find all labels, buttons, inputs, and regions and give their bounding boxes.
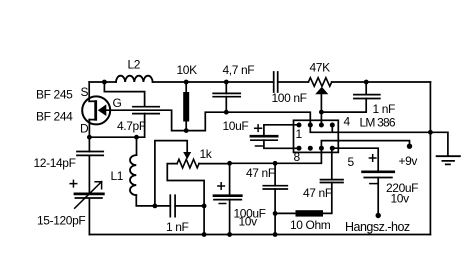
svg-text:4,7 nF: 4,7 nF	[223, 63, 255, 77]
capacitor 220uF bottom lead	[377, 178, 379, 214]
svg-text:4: 4	[344, 115, 351, 129]
capacitor 4.7pF plates	[133, 107, 159, 114]
junction 47nF 10ohm	[273, 211, 278, 216]
capacitor 100uF thick plate	[214, 194, 241, 197]
potentiometer 1k wiper routing	[155, 141, 187, 206]
potentiometer 1k zigzag	[177, 159, 199, 168]
capacitor 15-120pF thin plate	[75, 197, 102, 199]
wire bottom rail	[89, 234, 430, 236]
capacitor 47nF first plates	[263, 186, 287, 189]
resistor 10K body	[183, 92, 189, 122]
potentiometer 1k arrow	[183, 152, 191, 159]
wire right rail	[429, 82, 431, 235]
inductor L2	[116, 76, 153, 82]
wire 12-14pF chain	[88, 137, 90, 234]
IC pin dot 1 bottom	[297, 146, 302, 151]
svg-text:5: 5	[348, 155, 355, 169]
junction right rail ground	[428, 130, 433, 135]
minus sign 220uF	[370, 183, 377, 185]
wire S node to 4.7pF top	[104, 82, 144, 107]
wire S lead	[88, 82, 90, 101]
junction rail drop	[202, 232, 207, 237]
svg-text:+9v: +9v	[399, 154, 418, 168]
svg-text:10K: 10K	[177, 63, 198, 77]
op-amp U1 LM386 body	[294, 120, 339, 152]
ground stub	[430, 132, 448, 156]
ground bars	[437, 156, 460, 164]
wire 1nF right to drop node	[175, 206, 204, 235]
wire node C to IC pin	[230, 148, 322, 163]
IC pin dot 3 bottom	[319, 146, 324, 151]
junction 1nF right	[202, 204, 207, 209]
wire top rail middle segment	[153, 81, 273, 83]
transistor Q1 circle	[82, 96, 110, 124]
plus sign 10uF	[255, 125, 262, 131]
junction 47nF top	[273, 161, 278, 166]
svg-text:10v: 10v	[391, 192, 410, 206]
svg-text:L2: L2	[128, 58, 141, 72]
wire IC pin5 to 220uF	[332, 148, 378, 172]
svg-text:G: G	[113, 96, 122, 110]
resistor 10K top lead	[185, 82, 187, 92]
svg-text:L1: L1	[111, 169, 124, 183]
junction D node left	[87, 135, 92, 140]
plus sign 100uF	[218, 183, 225, 190]
IC pin dot 2 top	[308, 123, 313, 128]
capacitor 1nF top lead	[365, 82, 367, 95]
svg-text:10uF: 10uF	[223, 119, 249, 133]
wire gate from Q1 to lower node	[106, 110, 310, 130]
wire node B to 1nF bottom	[321, 99, 366, 113]
transistor Q1 gate arrow	[98, 104, 107, 116]
wire L1 bottom to 1nF	[136, 195, 170, 206]
svg-text:1: 1	[296, 127, 303, 141]
minus sign 100uF	[219, 203, 226, 205]
svg-text:1 nF: 1 nF	[373, 102, 396, 116]
transistor Q1 internal S bar link	[89, 100, 94, 102]
capacitor 47nF first top lead	[274, 163, 276, 185]
wire IC top pins to right rail	[310, 125, 430, 132]
svg-text:10v: 10v	[239, 215, 258, 229]
wire 1k right lead	[199, 163, 230, 165]
capacitor 100uF top lead	[229, 163, 231, 195]
svg-text:LM 386: LM 386	[360, 116, 396, 130]
capacitor 15-120pF thick plate	[75, 192, 103, 195]
junction 10K bottom	[184, 128, 189, 133]
capacitor 47nF second plates	[321, 180, 344, 183]
capacitor 100uF bottom lead	[229, 200, 231, 235]
svg-text:47 nF: 47 nF	[246, 166, 275, 180]
resistor 10K bottom lead	[185, 122, 187, 131]
svg-text:Hangsz.-hoz: Hangsz.-hoz	[345, 220, 410, 234]
capacitor 1nF bottom plates	[170, 195, 175, 216]
svg-text:1 nF: 1 nF	[166, 220, 189, 234]
transistor Q1 internal D bar link	[89, 119, 94, 121]
capacitor 12-14pF plates	[77, 152, 103, 156]
wire top rail left segment	[89, 81, 116, 83]
IC pin dot 4 bottom	[330, 146, 335, 151]
svg-text:BF 244: BF 244	[36, 110, 73, 124]
svg-text:47 nF: 47 nF	[303, 186, 332, 200]
svg-text:47K: 47K	[310, 61, 331, 75]
capacitor 220uF thin plate	[364, 177, 392, 179]
svg-text:1k: 1k	[200, 147, 213, 161]
capacitor 10uF thin plate	[251, 139, 277, 141]
svg-text:4.7pF: 4.7pF	[117, 119, 146, 133]
svg-text:S: S	[81, 85, 89, 99]
transistor Q1 channel bar	[94, 100, 97, 121]
capacitor 4,7nF bottom lead	[225, 97, 227, 113]
svg-text:12-14pF: 12-14pF	[34, 156, 76, 170]
svg-text:15-120pF: 15-120pF	[37, 214, 85, 228]
wire top rail after 100nF	[279, 81, 309, 83]
junction 1nF bottom wire	[153, 204, 158, 209]
potentiometer 47K zigzag	[308, 78, 331, 87]
IC pin dot 3 top	[319, 123, 324, 128]
junction 100uF rail	[227, 232, 232, 237]
potentiometer 47K arrow	[315, 87, 328, 94]
svg-text:BF 245: BF 245	[36, 88, 73, 102]
wire D lead	[88, 120, 90, 138]
wire 1k left lead routing	[167, 164, 204, 206]
wire 10 Ohm left lead	[275, 212, 295, 214]
capacitor 47nF second top lead	[331, 148, 333, 179]
IC pin dot 4 top	[330, 123, 335, 128]
potentiometer 47K wiper stem	[320, 94, 322, 125]
plus sign 15-120pF	[70, 180, 77, 187]
svg-text:8: 8	[294, 150, 301, 164]
wire IC pin6 to +9v	[321, 141, 409, 149]
resistor 10 Ohm body	[296, 210, 324, 216]
capacitor 220uF thick plate	[363, 170, 394, 173]
capacitor 1nF top plates	[354, 95, 380, 99]
IC pin dot 2 bottom	[308, 146, 313, 151]
svg-text:100 nF: 100 nF	[272, 91, 307, 105]
terminal +9v	[407, 144, 412, 149]
inductor L1	[130, 155, 136, 195]
capacitor 15-120pF arrow	[75, 182, 102, 209]
svg-text:10 Ohm: 10 Ohm	[290, 218, 331, 232]
capacitor 10uF thick plate	[251, 135, 277, 138]
capacitor 4,7nF top lead	[225, 82, 227, 93]
plus sign 220uF	[369, 155, 376, 161]
svg-text:D: D	[80, 122, 89, 136]
junction 4,7nF bottom	[224, 110, 229, 115]
junction 47nF rail	[273, 232, 278, 237]
capacitor 100uF thin plate	[214, 199, 241, 201]
minus sign 10uF	[256, 145, 263, 147]
wire 10 Ohm right lead	[323, 183, 332, 214]
terminal speaker	[376, 213, 381, 218]
junction D node right	[134, 135, 139, 140]
junction 1nF top	[364, 80, 369, 85]
junction S node	[102, 80, 107, 85]
wire L1 top lead	[136, 137, 138, 155]
junction 4,7nF top	[224, 80, 229, 85]
junction node B	[319, 110, 324, 115]
capacitor 100nF plates	[274, 72, 278, 92]
wire top rail right segment	[332, 81, 431, 83]
wire 4.7pF bottom lead	[144, 114, 146, 138]
wire D node horizontal	[89, 136, 144, 138]
capacitor 4,7nF plates	[213, 93, 240, 96]
junction 10K top	[184, 80, 189, 85]
capacitor 10uF top lead	[264, 125, 299, 136]
capacitor 10uF bottom lead	[264, 140, 299, 148]
junction node C left	[227, 161, 232, 166]
capacitor 47nF first bottom lead	[274, 189, 276, 235]
IC pin dot 1 top	[297, 123, 302, 128]
